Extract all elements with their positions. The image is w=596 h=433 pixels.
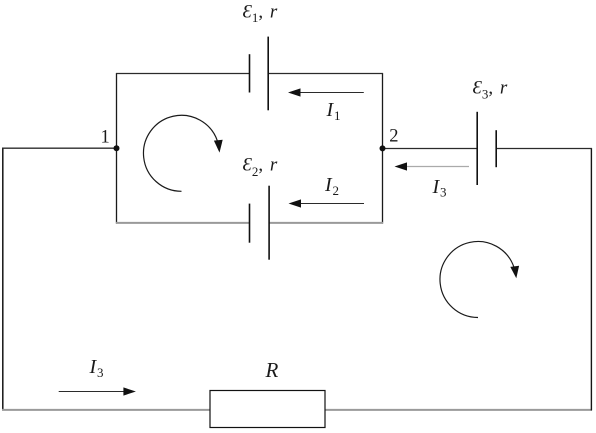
wire: inner rect bottom edge left of E2 (116, 222, 250, 224)
wire: outer right vertical (590, 148, 592, 410)
node 2 junction dot (380, 145, 386, 151)
arrow I3 bottom (points right) (59, 387, 136, 395)
arrow I1 (points left) (288, 88, 364, 96)
svg-text:R: R (265, 358, 279, 382)
arrow I3 right side (points left, gray shaft) (395, 162, 470, 170)
wire: right horizontal, node 2 to E3 long plate (383, 148, 478, 150)
wire: outer left vertical (2, 148, 4, 411)
wire: left horizontal, node 1 to outer left (2, 147, 117, 149)
svg-text:2: 2 (389, 127, 398, 147)
resistor R box (210, 391, 325, 428)
wire: inner rect top edge right of E1 (268, 73, 383, 75)
wire: right horizontal, E3 short plate to right edge (496, 148, 592, 150)
battery E2 long plate (positive) (268, 186, 270, 260)
node 1 junction dot (114, 145, 120, 151)
battery E1 short plate (negative) (249, 54, 251, 92)
svg-text:Ɛ2, r: Ɛ2, r (243, 155, 278, 179)
arrow I2 (points left) (289, 199, 365, 207)
svg-text:Ɛ1, r: Ɛ1, r (243, 2, 278, 26)
battery E2 short plate (negative) (249, 204, 251, 243)
loop arrow left (clockwise) (143, 115, 222, 191)
wire: inner rect left edge (116, 73, 118, 224)
wire: inner rect top edge left of E1 (116, 73, 250, 75)
svg-text:Ɛ3, r: Ɛ3, r (473, 77, 508, 101)
loop arrow right (clockwise) (440, 242, 519, 318)
battery E1 long plate (positive) (267, 37, 269, 111)
wire: inner rect right edge (382, 73, 384, 224)
wire: outer bottom horizontal (2, 409, 592, 411)
battery E3 short plate (negative) (495, 130, 497, 167)
battery E3 long plate (positive) (476, 112, 478, 185)
wire: inner rect bottom edge right of E2 (269, 222, 383, 224)
svg-text:1: 1 (101, 128, 110, 148)
